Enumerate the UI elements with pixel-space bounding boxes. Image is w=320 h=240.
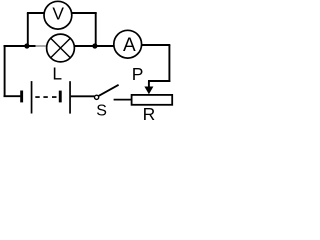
wire lamp-row left horizontal: [4, 45, 36, 47]
wire lamp to ammeter horizontal: [75, 45, 114, 47]
node A junction dot: [24, 43, 29, 48]
switch S pivot circle: [95, 95, 99, 99]
wire slider horizontal: [148, 80, 170, 82]
wire switch to rheostat: [114, 99, 132, 101]
lamp X cross line 2: [51, 38, 71, 58]
svg-text:P: P: [132, 64, 144, 84]
battery dashed continuation dash 2: [43, 96, 47, 98]
battery cell1 positive plate (thin tall): [31, 81, 33, 113]
battery dashed continuation dash 1: [35, 96, 39, 98]
lamp L circle: [47, 34, 75, 62]
wire bottom-left horizontal to battery: [4, 95, 21, 97]
wire right-top vertical down to node B: [95, 13, 97, 46]
battery cell2 negative plate (thick short): [59, 91, 62, 103]
svg-text:S: S: [96, 102, 107, 119]
rheostat slider arrow shaft: [148, 81, 150, 88]
svg-text:V: V: [52, 4, 64, 24]
wire right vertical: [168, 45, 170, 82]
ammeter A meter circle: [114, 30, 142, 58]
voltmeter V meter circle: [44, 1, 72, 29]
wire voltmeter branch vertical: [27, 13, 29, 46]
lamp X cross line 1: [51, 38, 71, 58]
node B junction dot: [92, 43, 97, 48]
wire left vertical: [4, 45, 6, 97]
battery cell1 negative plate (thick short): [20, 91, 23, 103]
wire ammeter right horizontal: [141, 44, 170, 46]
battery dashed continuation dash 3: [52, 96, 57, 98]
svg-text:L: L: [52, 63, 62, 83]
switch S blade (open): [99, 85, 119, 96]
battery cell2 positive plate (thin tall): [69, 81, 71, 113]
svg-text:A: A: [123, 35, 136, 56]
svg-text:R: R: [143, 104, 156, 121]
rheostat slider arrowhead: [144, 87, 153, 95]
wire battery to switch: [71, 95, 95, 97]
wire faint segment into lamp: [36, 45, 48, 47]
wire voltmeter top-right horizontal: [72, 12, 97, 14]
wire voltmeter branch top-left horizontal: [27, 12, 44, 14]
rheostat R body rectangle: [132, 95, 173, 105]
